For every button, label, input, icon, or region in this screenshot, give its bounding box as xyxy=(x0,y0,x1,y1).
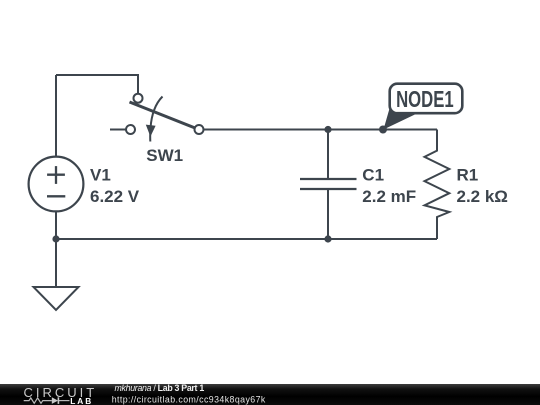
flag pointer tail xyxy=(384,109,419,130)
svg-text:mkhurana / Lab 3 Part 1: mkhurana / Lab 3 Part 1 xyxy=(115,383,205,393)
minus sign xyxy=(47,195,65,197)
wire switch left stub xyxy=(110,129,126,131)
logo diode symbol xyxy=(52,397,58,404)
switch actuation arrow xyxy=(150,97,162,142)
node NODE1 flag xyxy=(384,84,463,130)
wire capacitor top lead xyxy=(327,130,329,180)
junction dot V1 bottom xyxy=(52,235,59,242)
svg-text:6.22 V: 6.22 V xyxy=(90,187,140,206)
svg-text:C1: C1 xyxy=(362,166,384,185)
svg-text:R1: R1 xyxy=(457,166,479,185)
switch top terminal xyxy=(134,94,143,103)
svg-text:http://circuitlab.com/cc934k8q: http://circuitlab.com/cc934k8qay67k xyxy=(112,394,266,404)
wire top-left from V1 top to switch xyxy=(56,75,138,94)
svg-text:SW1: SW1 xyxy=(146,146,183,165)
svg-text:V1: V1 xyxy=(90,166,111,185)
voltage source V1 xyxy=(29,157,140,212)
switch right terminal xyxy=(195,125,204,134)
junction dot capacitor bottom xyxy=(324,235,331,242)
top plate xyxy=(300,178,357,180)
footer bar xyxy=(0,383,540,405)
bottom plate xyxy=(300,188,357,190)
svg-text:2.2 kΩ: 2.2 kΩ xyxy=(457,187,508,206)
ground xyxy=(34,287,79,310)
capacitor C1 xyxy=(300,166,416,206)
junction dot NODE1 xyxy=(379,126,387,134)
svg-text:2.2 mF: 2.2 mF xyxy=(362,187,416,206)
logo schematic line with resistor and diode xyxy=(24,398,70,403)
switch left terminal xyxy=(126,125,135,134)
svg-text:LAB: LAB xyxy=(70,396,93,405)
wire bottom rail xyxy=(56,238,437,240)
wire left V1 top lead xyxy=(55,75,57,157)
svg-text:NODE1: NODE1 xyxy=(396,86,454,112)
switch blade xyxy=(130,102,195,128)
junction dot capacitor top xyxy=(324,126,331,133)
flag balloon xyxy=(390,84,463,114)
wire left V1 bottom lead to ground xyxy=(55,212,57,288)
switch SW1 xyxy=(126,94,204,165)
plus sign xyxy=(47,174,65,176)
wire capacitor bottom lead xyxy=(327,189,329,239)
resistor R1 xyxy=(425,130,508,240)
wire top from switch to resistor xyxy=(204,129,438,131)
